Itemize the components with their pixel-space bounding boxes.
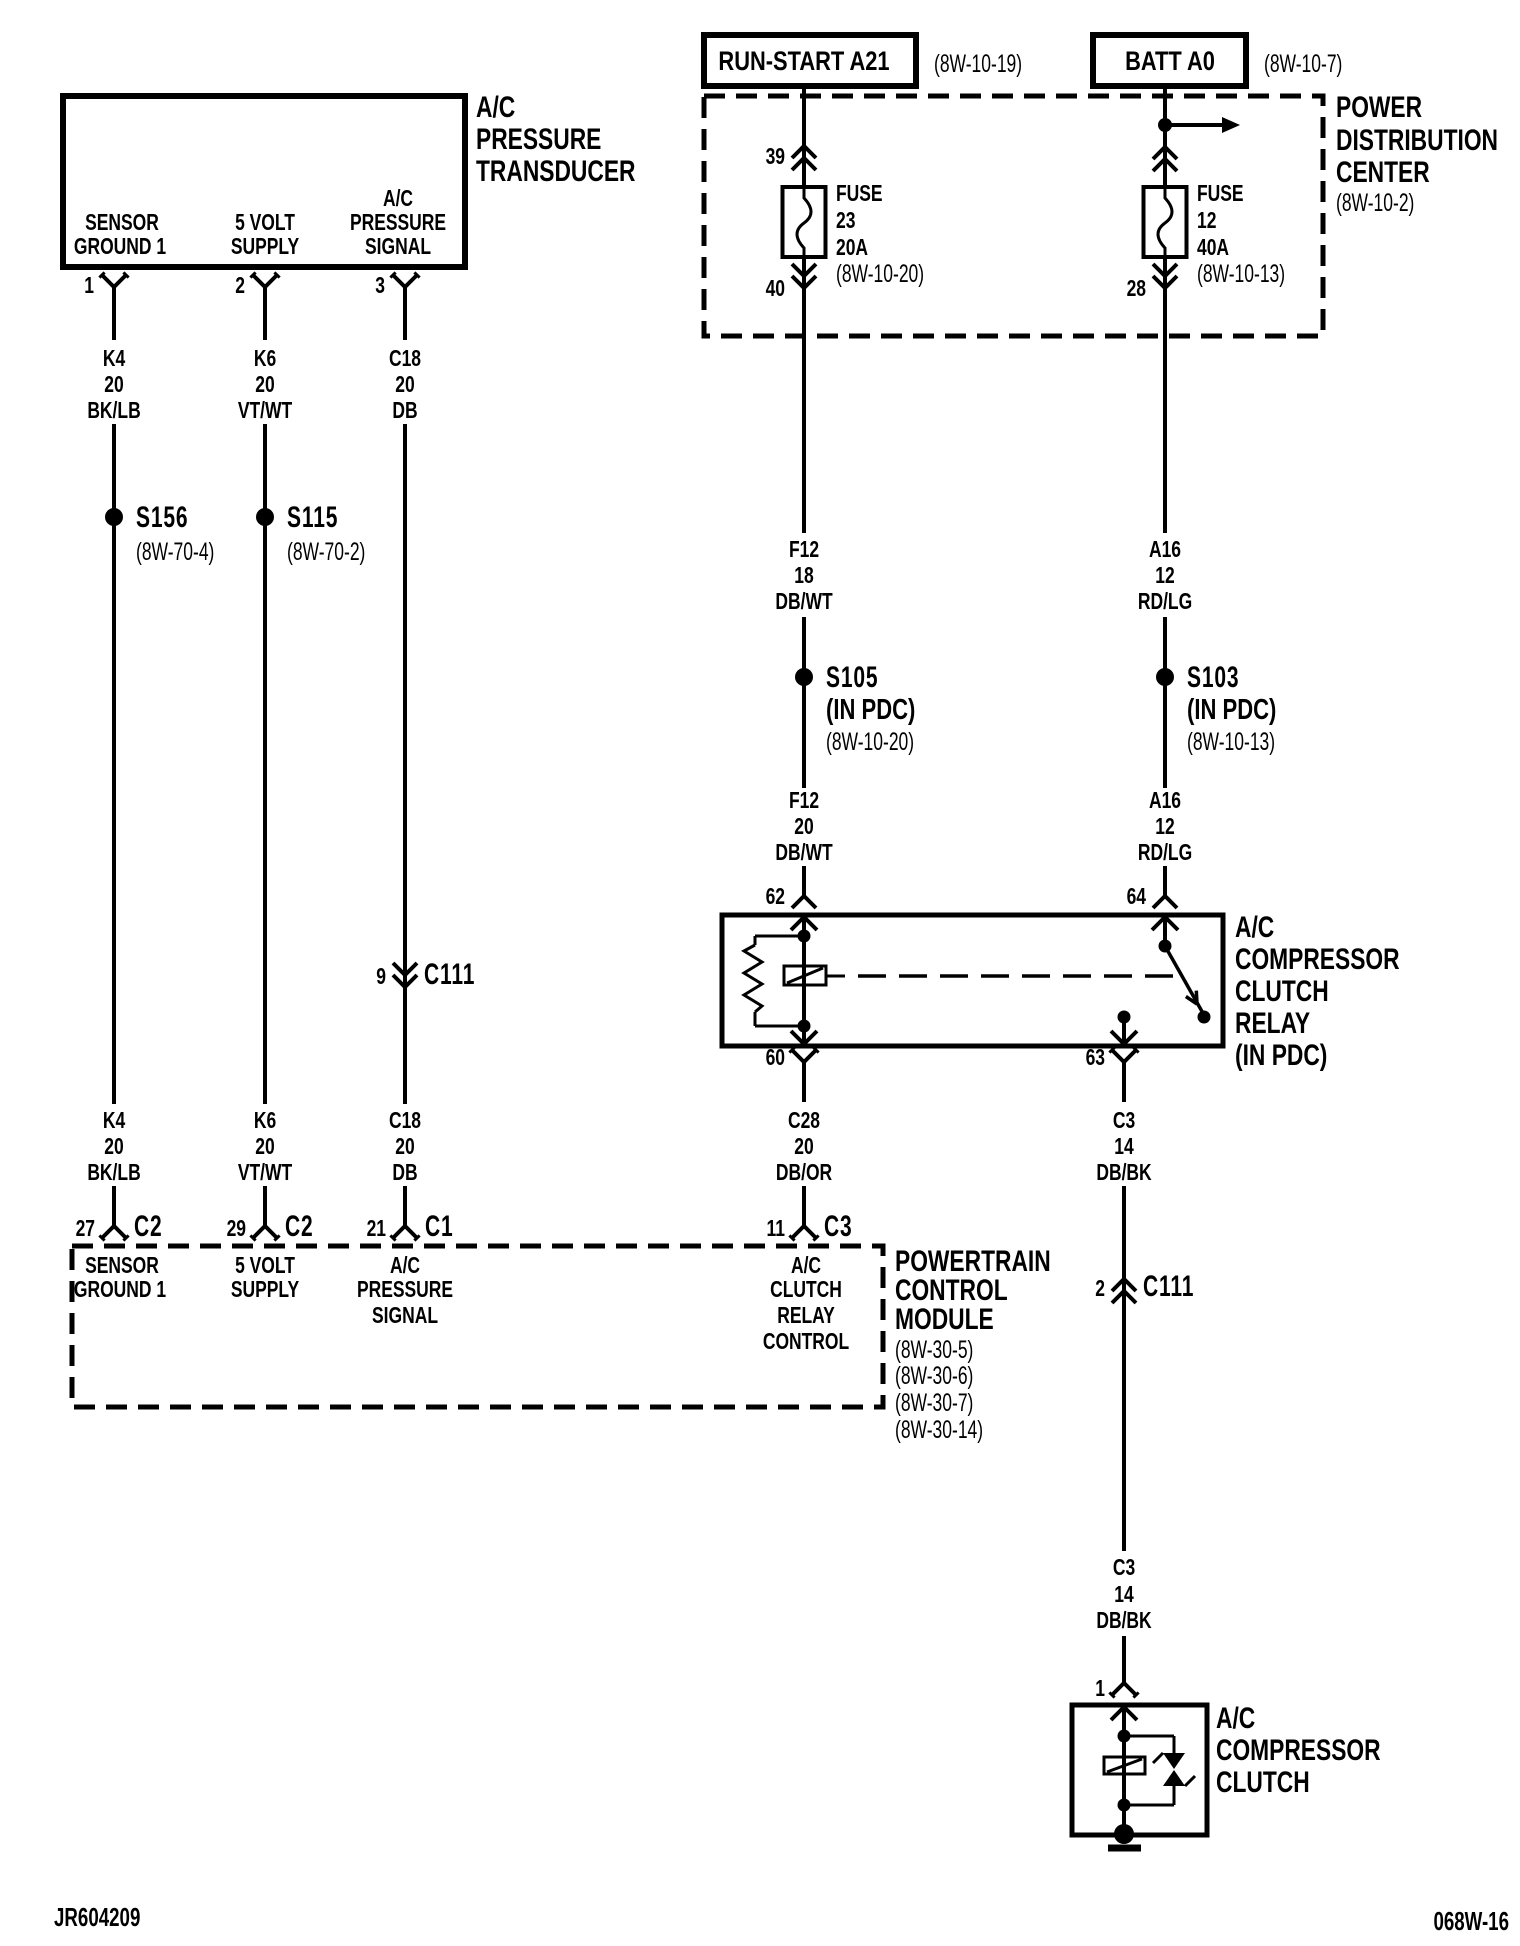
svg-text:C111: C111	[1143, 1271, 1194, 1303]
svg-text:21: 21	[367, 1217, 386, 1242]
svg-text:C1: C1	[425, 1211, 454, 1243]
svg-text:(8W-30-7): (8W-30-7)	[895, 1388, 973, 1417]
svg-text:C3: C3	[824, 1211, 853, 1243]
svg-text:5 VOLT: 5 VOLT	[235, 211, 295, 236]
svg-text:A16: A16	[1149, 538, 1181, 563]
svg-text:DB/WT: DB/WT	[775, 590, 833, 615]
svg-text:C18: C18	[389, 347, 421, 372]
svg-text:40: 40	[766, 277, 785, 302]
svg-text:RD/LG: RD/LG	[1138, 841, 1192, 866]
svg-text:(8W-10-7): (8W-10-7)	[1264, 49, 1342, 78]
svg-text:BK/LB: BK/LB	[87, 399, 140, 424]
svg-text:12: 12	[1197, 209, 1216, 234]
svg-text:F12: F12	[789, 538, 819, 563]
svg-text:PRESSURE: PRESSURE	[476, 122, 601, 156]
svg-text:S156: S156	[136, 502, 188, 534]
svg-text:POWER: POWER	[1336, 90, 1422, 124]
svg-text:23: 23	[836, 209, 855, 234]
svg-text:29: 29	[227, 1217, 246, 1242]
svg-text:20: 20	[104, 373, 123, 398]
svg-text:DB/WT: DB/WT	[775, 841, 833, 866]
svg-text:CLUTCH: CLUTCH	[1216, 1765, 1310, 1799]
svg-text:1: 1	[1095, 1677, 1105, 1702]
svg-text:12: 12	[1155, 815, 1174, 840]
svg-text:(8W-10-13): (8W-10-13)	[1187, 727, 1275, 756]
svg-text:11: 11	[767, 1217, 785, 1242]
svg-text:FUSE: FUSE	[836, 182, 883, 207]
svg-text:SIGNAL: SIGNAL	[365, 235, 431, 260]
svg-text:PRESSURE: PRESSURE	[350, 211, 446, 236]
svg-text:3: 3	[375, 274, 385, 299]
svg-text:63: 63	[1086, 1046, 1105, 1071]
svg-text:DISTRIBUTION: DISTRIBUTION	[1336, 123, 1498, 157]
svg-text:MODULE: MODULE	[895, 1302, 994, 1336]
svg-text:K6: K6	[254, 347, 276, 372]
svg-text:K4: K4	[103, 347, 126, 372]
svg-text:(8W-30-14): (8W-30-14)	[895, 1415, 983, 1444]
svg-text:A/C: A/C	[476, 90, 515, 124]
svg-text:S105: S105	[826, 662, 878, 694]
svg-text:C28: C28	[788, 1109, 820, 1134]
svg-text:A/C: A/C	[1216, 1701, 1255, 1735]
svg-text:(IN PDC): (IN PDC)	[826, 694, 915, 726]
svg-text:20: 20	[255, 373, 274, 398]
svg-text:K4: K4	[103, 1109, 126, 1134]
svg-text:C111: C111	[424, 959, 475, 991]
svg-text:A/C: A/C	[383, 187, 413, 212]
svg-text:RD/LG: RD/LG	[1138, 590, 1192, 615]
svg-text:20: 20	[794, 1135, 813, 1160]
svg-text:SENSOR: SENSOR	[85, 1254, 159, 1279]
svg-text:C3: C3	[1113, 1556, 1135, 1581]
svg-text:A16: A16	[1149, 789, 1181, 814]
svg-text:GROUND 1: GROUND 1	[74, 235, 166, 260]
svg-text:BK/LB: BK/LB	[87, 1161, 140, 1186]
svg-text:A/C: A/C	[1235, 910, 1274, 944]
svg-text:5 VOLT: 5 VOLT	[235, 1254, 295, 1279]
svg-text:28: 28	[1127, 277, 1146, 302]
svg-text:SUPPLY: SUPPLY	[231, 235, 300, 260]
svg-text:27: 27	[76, 1217, 95, 1242]
svg-text:S115: S115	[287, 502, 338, 534]
svg-text:20: 20	[794, 815, 813, 840]
svg-text:SENSOR: SENSOR	[85, 211, 159, 236]
svg-text:GROUND 1: GROUND 1	[74, 1278, 166, 1303]
svg-text:068W-16: 068W-16	[1433, 1906, 1509, 1936]
svg-text:COMPRESSOR: COMPRESSOR	[1235, 942, 1400, 976]
svg-text:(8W-70-4): (8W-70-4)	[136, 537, 214, 566]
svg-text:39: 39	[766, 145, 785, 170]
svg-text:RELAY: RELAY	[1235, 1006, 1310, 1040]
svg-text:S103: S103	[1187, 662, 1239, 694]
svg-text:A/C: A/C	[390, 1254, 420, 1279]
svg-text:(8W-70-2): (8W-70-2)	[287, 537, 365, 566]
svg-text:K6: K6	[254, 1109, 276, 1134]
svg-text:VT/WT: VT/WT	[238, 1161, 293, 1186]
svg-text:(8W-10-13): (8W-10-13)	[1197, 259, 1285, 288]
svg-text:40A: 40A	[1197, 236, 1229, 261]
svg-text:14: 14	[1114, 1583, 1134, 1608]
svg-text:20: 20	[255, 1135, 274, 1160]
svg-text:12: 12	[1155, 564, 1174, 589]
svg-text:60: 60	[766, 1046, 785, 1071]
svg-text:9: 9	[376, 965, 386, 990]
svg-text:DB: DB	[392, 1161, 417, 1186]
svg-text:SIGNAL: SIGNAL	[372, 1304, 438, 1329]
svg-text:(8W-30-6): (8W-30-6)	[895, 1361, 973, 1390]
svg-text:2: 2	[235, 274, 245, 299]
svg-text:20: 20	[104, 1135, 123, 1160]
svg-text:A/C: A/C	[791, 1254, 821, 1279]
svg-text:C2: C2	[285, 1211, 314, 1243]
svg-text:20: 20	[395, 1135, 414, 1160]
svg-text:(8W-10-20): (8W-10-20)	[826, 727, 914, 756]
svg-text:C18: C18	[389, 1109, 421, 1134]
svg-text:C3: C3	[1113, 1109, 1135, 1134]
svg-text:DB/BK: DB/BK	[1096, 1609, 1152, 1634]
svg-text:TRANSDUCER: TRANSDUCER	[476, 154, 635, 188]
svg-text:JR604209: JR604209	[54, 1902, 140, 1932]
svg-text:20: 20	[395, 373, 414, 398]
svg-text:DB/BK: DB/BK	[1096, 1161, 1152, 1186]
svg-text:(8W-10-2): (8W-10-2)	[1336, 188, 1414, 217]
svg-text:C2: C2	[134, 1211, 163, 1243]
svg-text:DB: DB	[392, 399, 417, 424]
svg-text:18: 18	[794, 564, 813, 589]
svg-text:FUSE: FUSE	[1197, 182, 1244, 207]
svg-text:DB/OR: DB/OR	[776, 1161, 832, 1186]
svg-text:RUN-START A21: RUN-START A21	[718, 47, 889, 77]
svg-text:CONTROL: CONTROL	[763, 1330, 849, 1355]
svg-text:(8W-10-19): (8W-10-19)	[934, 49, 1022, 78]
svg-text:PRESSURE: PRESSURE	[357, 1278, 453, 1303]
svg-text:CLUTCH: CLUTCH	[1235, 974, 1329, 1008]
svg-text:SUPPLY: SUPPLY	[231, 1278, 300, 1303]
svg-text:64: 64	[1127, 885, 1147, 910]
svg-text:(IN PDC): (IN PDC)	[1235, 1038, 1327, 1072]
svg-text:14: 14	[1114, 1135, 1134, 1160]
svg-text:62: 62	[766, 885, 785, 910]
svg-text:RELAY: RELAY	[777, 1304, 835, 1329]
svg-text:COMPRESSOR: COMPRESSOR	[1216, 1733, 1381, 1767]
svg-text:(8W-30-5): (8W-30-5)	[895, 1335, 973, 1364]
svg-text:(8W-10-20): (8W-10-20)	[836, 259, 924, 288]
svg-text:20A: 20A	[836, 236, 868, 261]
svg-text:BATT A0: BATT A0	[1125, 47, 1215, 77]
svg-text:2: 2	[1095, 1277, 1105, 1302]
svg-text:CLUTCH: CLUTCH	[770, 1278, 842, 1303]
svg-text:(IN PDC): (IN PDC)	[1187, 694, 1276, 726]
svg-text:CENTER: CENTER	[1336, 155, 1430, 189]
svg-text:F12: F12	[789, 789, 819, 814]
svg-text:VT/WT: VT/WT	[238, 399, 293, 424]
svg-text:1: 1	[84, 274, 94, 299]
